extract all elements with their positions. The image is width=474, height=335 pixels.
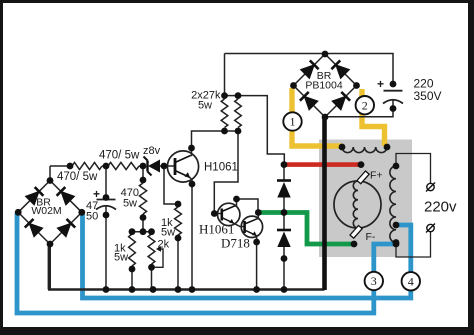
wire blue output 3 (W02M left vertex to winding bottom): [17, 213, 396, 313]
wire 2x27k top junction to sense node: [238, 96, 284, 165]
brush F-: [350, 226, 362, 239]
svg-text:F-: F-: [366, 231, 376, 243]
svg-text:PB1004: PB1004: [305, 80, 343, 92]
diode chain: wire from sense node: [283, 165, 285, 181]
svg-text:470/ 5w: 470/ 5w: [57, 171, 98, 183]
node 2: [356, 96, 374, 114]
svg-text:220v: 220v: [424, 199, 457, 216]
wire yellow 1 (PB1004 left vertex to field coil left): [292, 88, 342, 146]
node 3: [365, 272, 383, 290]
ground bus: [48, 288, 325, 291]
transistor Q2 H1061: [218, 203, 240, 225]
transistor Q1 H1061: [167, 151, 198, 182]
svg-text:H1061: H1061: [199, 222, 234, 237]
svg-text:5w: 5w: [198, 100, 212, 112]
svg-text:+: +: [93, 187, 100, 201]
trimmer 2k: [148, 234, 155, 264]
brush F+: [357, 171, 369, 184]
svg-text:+: +: [377, 77, 384, 91]
dc rail PB1004 bottom to cap: [325, 109, 393, 117]
wire 2x27k bottom to Q2 base: [214, 131, 238, 214]
wire Q3 collector stub: [257, 213, 258, 219]
svg-text:F+: F+: [370, 170, 383, 182]
wire Q1 emitter to ground bus: [190, 178, 192, 290]
field coil (top winding): [342, 147, 387, 153]
svg-text:470/ 5w: 470/ 5w: [99, 150, 140, 162]
wire 2x27k top to rail: [224, 54, 226, 96]
svg-text:5w: 5w: [123, 198, 137, 210]
wire Q2 emitter to Q3 base: [234, 223, 245, 226]
trimmer 2k wiper: [153, 249, 164, 267]
bridge rectifier BR PB1004: [294, 54, 357, 117]
wire W02M bottom vertex to bus: [48, 244, 51, 290]
thick dc minus drop (PB1004 bottom to bus): [322, 117, 327, 290]
wire green (darlington collector to F- brush): [258, 213, 354, 245]
svg-text:2: 2: [362, 98, 368, 112]
wire Q1 collector stub: [191, 148, 192, 156]
svg-text:H1061: H1061: [204, 162, 238, 174]
resistor 1k 5w (left): [129, 234, 136, 266]
resistor 1k 5w (base): [175, 207, 182, 235]
output terminal wires: [396, 154, 431, 184]
capacitor C 47/50: [105, 166, 107, 198]
wire red (sense line to F+ brush): [284, 162, 361, 167]
resistor 470 5w vertical: [142, 166, 144, 183]
wire W02M top vertex up: [49, 166, 51, 181]
svg-text:4: 4: [408, 275, 414, 289]
svg-text:350V: 350V: [414, 89, 442, 103]
transistor Q3 D718: [241, 216, 262, 237]
gray generator block: [319, 140, 412, 258]
wire blue output 4 (W02M right vertex to winding tap): [83, 214, 411, 298]
bridge rectifier BR W02M: [18, 181, 82, 245]
svg-text:5w: 5w: [114, 252, 128, 264]
junction dots: [322, 51, 329, 58]
diode D1: [277, 179, 291, 182]
wire yellow 2 (PB1004 right vertex to field coil right): [362, 89, 385, 146]
terminal phi 1: [427, 183, 434, 190]
node 4: [402, 272, 420, 290]
svg-text:W02M: W02M: [31, 205, 61, 217]
armature circle: [334, 181, 381, 228]
stator winding (right): [390, 166, 396, 243]
wire 1k5w to bus: [177, 238, 179, 290]
top rail wire: [225, 54, 394, 85]
svg-text:50: 50: [86, 211, 98, 223]
terminal phi 2: [427, 224, 434, 231]
svg-text:z8v: z8v: [143, 145, 161, 157]
capacitor C 220/350V: [384, 90, 403, 92]
resistor 470/5w #1: [50, 165, 72, 167]
svg-text:1: 1: [290, 115, 296, 129]
wire Q2 collector: [235, 199, 259, 213]
svg-text:5w: 5w: [161, 227, 175, 239]
resistor 2x27k 5w (two in parallel): [225, 95, 239, 97]
wire zener junction down to 1k5w: [164, 166, 178, 204]
resistor 470/5w #2: [108, 162, 139, 169]
node 1: [283, 112, 301, 130]
svg-text:D718: D718: [221, 236, 250, 251]
svg-text:3: 3: [371, 274, 377, 288]
junction row wire: [132, 231, 152, 233]
diode D2: [277, 229, 291, 232]
wire 2x27k bottom to Q1 collector: [192, 131, 225, 148]
wire Q3 emitter to bus: [256, 236, 258, 290]
